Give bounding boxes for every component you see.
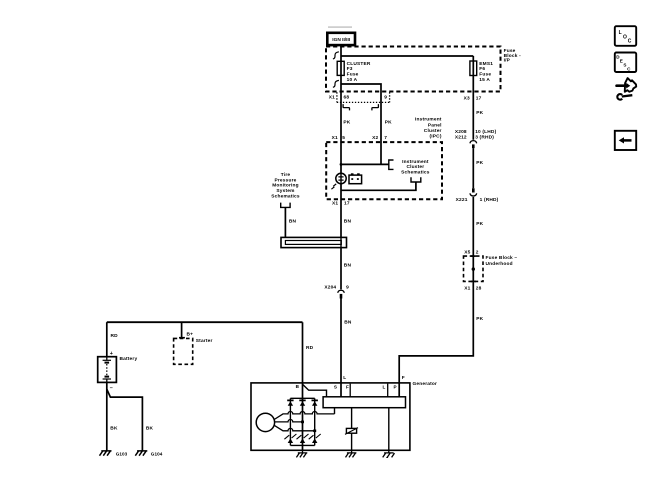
svg-text:X1: X1 <box>332 135 338 141</box>
svg-text:Pressure: Pressure <box>275 177 297 183</box>
svg-text:Fuse: Fuse <box>347 72 359 78</box>
svg-text:PK: PK <box>476 221 483 227</box>
svg-text:Battery: Battery <box>120 356 138 362</box>
svg-text:PK: PK <box>476 316 483 322</box>
svg-text:RD: RD <box>306 345 314 351</box>
svg-text:Monitoring: Monitoring <box>272 183 299 189</box>
svg-text:X221: X221 <box>456 197 468 203</box>
svg-text:X208: X208 <box>455 129 467 135</box>
svg-text:17: 17 <box>476 95 482 101</box>
svg-text:PK: PK <box>343 119 350 125</box>
svg-text:C: C <box>628 38 632 44</box>
svg-text:17: 17 <box>344 201 350 207</box>
svg-text:Generator: Generator <box>413 381 438 387</box>
svg-text:Schematics: Schematics <box>401 169 430 175</box>
svg-text:BN: BN <box>289 219 297 225</box>
svg-text:9: 9 <box>346 284 349 290</box>
svg-text:10 (LHD): 10 (LHD) <box>475 129 496 135</box>
svg-text:Starter: Starter <box>196 338 213 344</box>
svg-text:7: 7 <box>384 135 387 141</box>
svg-text:(IPC): (IPC) <box>430 134 442 140</box>
svg-text:X204: X204 <box>324 284 336 290</box>
svg-text:–: – <box>110 385 113 391</box>
svg-text:X212: X212 <box>455 134 467 140</box>
svg-text:F: F <box>402 375 405 381</box>
svg-text:F: F <box>346 385 349 390</box>
svg-text:10 A: 10 A <box>347 77 358 83</box>
svg-text:F6: F6 <box>479 66 485 72</box>
svg-text:Panel: Panel <box>428 123 442 129</box>
svg-text:PK: PK <box>476 110 483 116</box>
svg-text:Fuse: Fuse <box>479 72 491 78</box>
svg-text:RD: RD <box>111 333 119 339</box>
svg-text:3 (RHD): 3 (RHD) <box>475 134 494 140</box>
svg-text:Fuse Block –: Fuse Block – <box>486 255 518 261</box>
svg-text:L: L <box>619 30 622 36</box>
svg-text:2: 2 <box>476 249 479 255</box>
svg-text:X2: X2 <box>372 135 378 141</box>
svg-text:EMS1: EMS1 <box>479 61 493 67</box>
svg-text:BN: BN <box>344 319 352 325</box>
svg-text:Underhood: Underhood <box>486 261 513 267</box>
svg-text:9: 9 <box>384 95 387 101</box>
svg-text:Cluster: Cluster <box>424 128 442 134</box>
svg-text:L: L <box>343 375 346 381</box>
svg-text:CLUSTER: CLUSTER <box>347 61 371 67</box>
svg-text:S: S <box>334 385 337 390</box>
svg-text:F3: F3 <box>347 66 353 72</box>
svg-text:28: 28 <box>476 286 482 292</box>
svg-text:15 A: 15 A <box>479 77 490 83</box>
svg-text:X1: X1 <box>464 286 470 292</box>
svg-text:IGN II/III: IGN II/III <box>332 37 351 43</box>
svg-text:X1: X1 <box>332 201 338 207</box>
svg-text:BK: BK <box>110 425 118 431</box>
svg-text:5: 5 <box>342 135 345 141</box>
svg-text:B+: B+ <box>187 331 194 337</box>
svg-text:I/P: I/P <box>504 58 511 64</box>
svg-text:G104: G104 <box>151 451 163 456</box>
svg-text:1 (RHD): 1 (RHD) <box>480 197 499 203</box>
svg-text:BK: BK <box>146 425 154 431</box>
svg-text:O: O <box>623 34 627 40</box>
svg-text:S: S <box>623 62 626 67</box>
svg-text:Instrument: Instrument <box>415 117 442 123</box>
svg-text:X1: X1 <box>329 95 335 101</box>
svg-text:L: L <box>382 385 385 390</box>
svg-text:BN: BN <box>344 262 352 268</box>
svg-text:Cluster: Cluster <box>407 164 425 170</box>
svg-text:68: 68 <box>344 95 350 101</box>
svg-text:X3: X3 <box>464 95 470 101</box>
svg-text:P: P <box>394 385 397 390</box>
svg-text:X5: X5 <box>464 249 470 255</box>
svg-text:G103: G103 <box>116 451 128 456</box>
svg-text:PK: PK <box>385 119 392 125</box>
svg-text:+: + <box>110 351 113 357</box>
svg-text:Schematics: Schematics <box>271 193 300 199</box>
svg-text:System: System <box>276 188 294 194</box>
svg-text:BN: BN <box>344 219 352 225</box>
svg-text:B: B <box>296 384 300 389</box>
svg-text:Instrument: Instrument <box>402 159 429 165</box>
svg-text:PK: PK <box>476 160 483 166</box>
svg-text:Tire: Tire <box>281 172 291 178</box>
